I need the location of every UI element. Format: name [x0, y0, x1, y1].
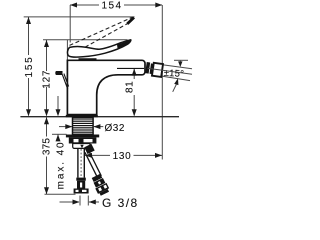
svg-text:130: 130	[113, 151, 132, 162]
svg-text:155: 155	[24, 55, 35, 77]
svg-text:G 3/8: G 3/8	[102, 196, 139, 210]
svg-text:375: 375	[42, 138, 53, 156]
svg-text:±15°: ±15°	[163, 68, 184, 80]
svg-text:127: 127	[42, 70, 53, 89]
svg-text:Ø32: Ø32	[105, 123, 125, 134]
svg-text:81: 81	[124, 81, 135, 93]
svg-text:max. 40: max. 40	[56, 141, 67, 190]
svg-text:154: 154	[102, 1, 123, 12]
